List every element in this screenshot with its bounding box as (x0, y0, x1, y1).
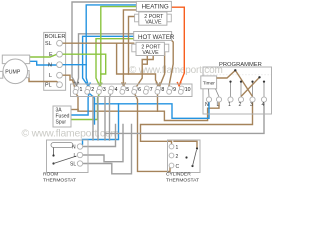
wire grey room stat L to terminal 5 (83, 125, 123, 162)
wire brown valve2 second core (142, 56, 147, 65)
wire green valve2 to terminal 3 (96, 39, 134, 86)
wire green boiler E to green vertical (62, 54, 106, 74)
svg-text:CYLINDER: CYLINDER (166, 172, 191, 178)
terminal 9 (167, 86, 173, 94)
svg-text:7: 7 (150, 87, 153, 93)
wire grey stat cable core 1 (92, 97, 94, 141)
svg-text:8: 8 (161, 87, 164, 93)
svg-text:PUMP: PUMP (5, 70, 21, 76)
wire grey room stat N to terminal 4 (83, 125, 116, 147)
svg-text:3: 3 (103, 87, 106, 93)
wire brown programmer 3 to cylinder stat 1 (141, 102, 253, 144)
3A fused spur box (53, 106, 71, 127)
terminal 4 (108, 86, 114, 94)
svg-text:4: 4 (262, 102, 265, 108)
programmer switch wires (217, 69, 266, 96)
terminal numbers 1-10 (80, 87, 191, 93)
wire blue neutral run to programmer N (90, 94, 209, 118)
arrow into terminal 3 (98, 82, 102, 86)
boiler terminal N (48, 62, 62, 69)
wire blue stub below terminal 2 riser (94, 104, 96, 124)
terminal 5 (120, 86, 126, 94)
svg-text:5: 5 (126, 87, 129, 93)
CYLINDER THERMOSTAT (166, 140, 200, 184)
svg-text:10: 10 (185, 87, 191, 93)
programmer terminals (206, 97, 266, 102)
svg-text:N: N (72, 145, 76, 151)
svg-text:L: L (74, 153, 77, 159)
programmer contact stubs (209, 82, 265, 97)
wire brown boiler L down (62, 75, 76, 90)
wire orange heating valve to terminal 10 (171, 7, 184, 85)
terminal strip (71, 84, 193, 97)
arrow into terminal 5 (122, 82, 126, 86)
svg-text:1: 1 (80, 87, 83, 93)
svg-text:N: N (48, 63, 52, 69)
wire brown fused spur to junction (71, 109, 79, 111)
svg-text:E: E (49, 52, 53, 58)
svg-text:L: L (49, 73, 52, 79)
svg-text:2: 2 (91, 87, 94, 93)
arrow into terminal 10 (177, 82, 181, 86)
svg-text:L: L (217, 102, 220, 108)
arrow into terminal 2 (86, 82, 90, 86)
wire brown valve2 to terminal 6 (137, 56, 153, 86)
wire grey programmer 4 long run (105, 102, 264, 133)
wire blue valve1 to terminal 2 (86, 5, 136, 86)
terminal 10 (178, 86, 184, 94)
arrow into terminal 8 (156, 82, 160, 86)
arrow into terminal 1 (74, 82, 78, 86)
svg-text:4: 4 (115, 87, 118, 93)
wire brown valve1 flange drop to live junction (129, 17, 135, 75)
wire grey stat cable core 4 (110, 93, 111, 140)
terminal 8 (155, 86, 161, 94)
svg-text:PL: PL (45, 83, 52, 89)
wire grey stat cable core 3 (104, 97, 106, 141)
2 port valve heating (135, 12, 172, 25)
wire brown terminal 6 to cylinder stat C (135, 94, 171, 172)
svg-text:6: 6 (138, 87, 141, 93)
svg-text:VALVE: VALVE (142, 50, 159, 56)
svg-text:1: 1 (176, 145, 179, 151)
programmer terminal labels (205, 102, 265, 108)
svg-text:ROOM: ROOM (43, 172, 58, 178)
wire brown valve2 flange to terminal 8 (160, 52, 165, 86)
wire brown terminal 8 to live run (157, 94, 159, 112)
svg-text:2: 2 (176, 154, 179, 160)
svg-text:Spur: Spur (56, 120, 67, 126)
terminal 3 (97, 86, 103, 94)
svg-text:1: 1 (228, 102, 231, 108)
svg-text:THERMOSTAT: THERMOSTAT (166, 178, 199, 184)
wire brown cylinder stat feed line inside (174, 141, 197, 148)
BOILER box (44, 32, 66, 90)
arrowheads (74, 82, 181, 86)
svg-text:2: 2 (239, 102, 242, 108)
wire blue valve2 to terminal 2 (83, 36, 134, 86)
svg-text:Timer: Timer (203, 81, 215, 87)
terminal 7 (143, 86, 149, 94)
wire brown SL branch to terminal 8 (117, 43, 159, 86)
wire brown pump L run (29, 75, 59, 84)
wire brown terminal 1 to junction (76, 94, 78, 110)
HEATING label box (136, 1, 171, 11)
PROGRAMMER (201, 62, 272, 114)
terminal 2 (85, 86, 91, 94)
terminal 6 (132, 86, 138, 94)
svg-text:SL: SL (70, 162, 76, 168)
wire grey valve2 to terminal 1 (77, 34, 134, 85)
wire grey room stat SL to terminal 6 (83, 125, 132, 174)
wire green fused spur to terminal 3 (71, 94, 100, 120)
svg-text:C: C (176, 164, 180, 170)
ROOM THERMOSTAT (43, 140, 88, 184)
wire brown hot water label box to terminal 9 (169, 40, 173, 85)
wire brown boiler SL to valve2 (62, 42, 134, 44)
HOT WATER label box (134, 32, 175, 41)
boiler terminal E (49, 51, 62, 58)
wire grey valve1 to terminal 1 (72, 2, 136, 84)
svg-text:HEATING: HEATING (142, 4, 169, 11)
boiler terminal SL (45, 40, 62, 47)
wire blue fused spur to terminal 2 (71, 94, 89, 115)
boiler terminal L (49, 72, 62, 79)
boiler terminal PL (45, 82, 62, 89)
wire brown live junction to programmer L (78, 102, 219, 121)
svg-text:N: N (205, 102, 209, 108)
svg-text:SL: SL (45, 41, 52, 47)
wire blue boiler N to blue vertical (62, 64, 86, 66)
wire grey stat cable core 2 (97, 97, 99, 141)
svg-text:3: 3 (250, 102, 253, 108)
2 port valve hot water (132, 42, 169, 56)
svg-text:VALVE: VALVE (145, 19, 162, 25)
svg-text:9: 9 (173, 87, 176, 93)
PUMP (0, 55, 30, 84)
terminal 1 (73, 86, 79, 94)
wire green valve1 to terminal 3 (100, 7, 136, 86)
wire blue branch to room stat N (83, 104, 119, 144)
svg-text:THERMOSTAT: THERMOSTAT (43, 178, 76, 184)
svg-text:BOILER: BOILER (45, 34, 66, 40)
wire blue pump to boiler (30, 61, 57, 65)
wire green pump to boiler E (30, 55, 57, 57)
wire brown valve1 to terminal 5 (123, 10, 136, 86)
svg-text:HOT WATER: HOT WATER (138, 34, 175, 41)
svg-text:© www.flameport.com: © www.flameport.com (22, 128, 119, 139)
